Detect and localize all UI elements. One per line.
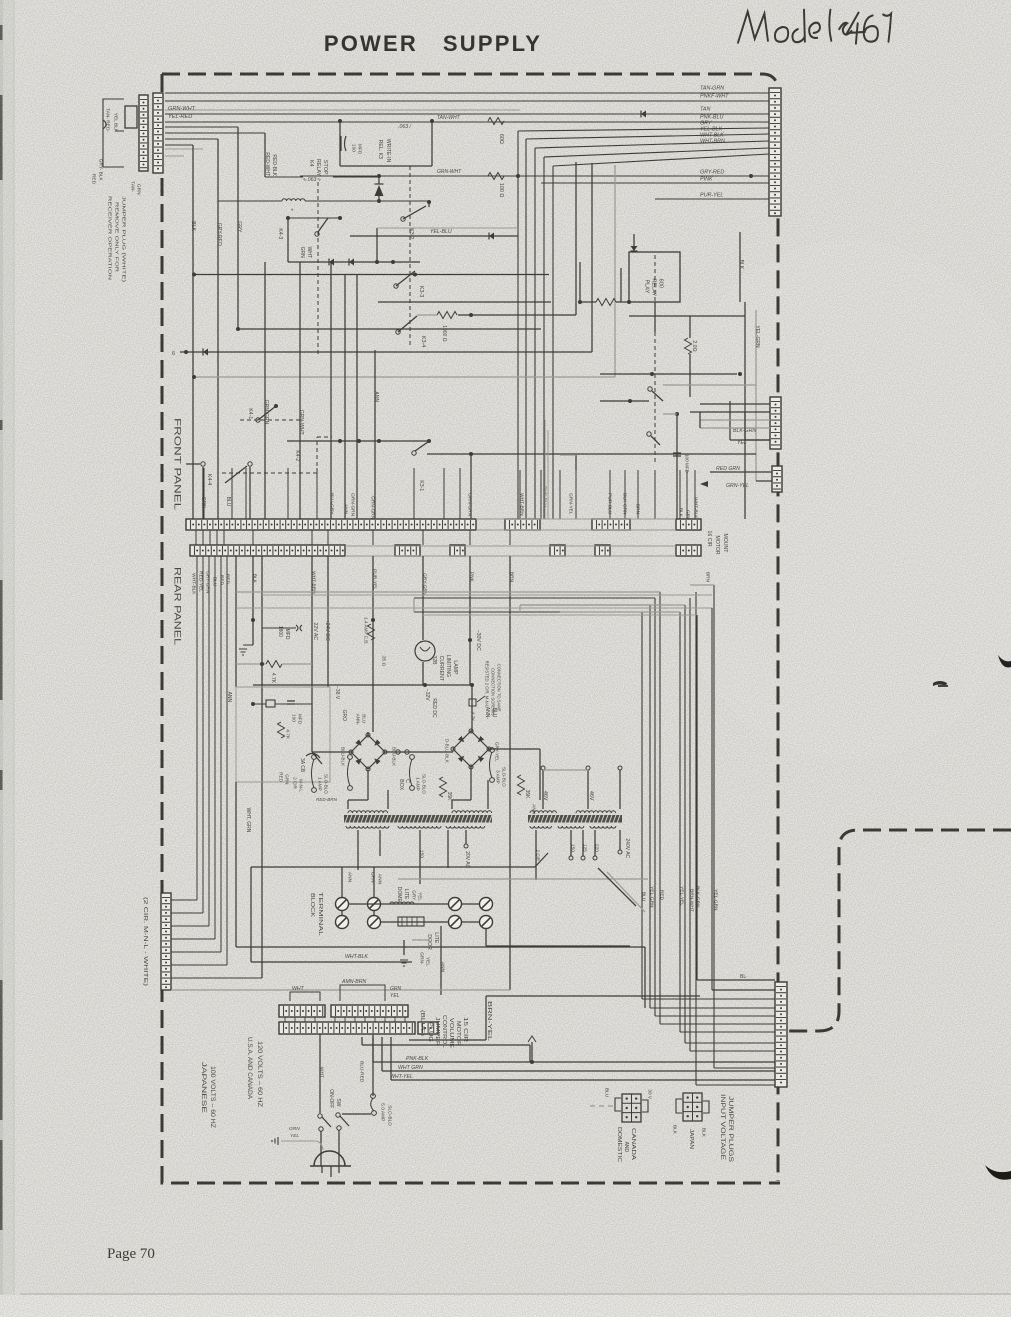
svg-text:GRY-YEL: GRY-YEL — [494, 742, 499, 762]
svg-text:BLK: BLK — [700, 1128, 706, 1138]
svg-text:WHT-BLK: WHT-BLK — [190, 573, 196, 595]
svg-text:GRN-GRN: GRN-GRN — [369, 496, 375, 519]
svg-text:JUMPER PLUGS: JUMPER PLUGS — [727, 1096, 734, 1162]
svg-text:BL·: BL· — [740, 974, 748, 980]
svg-text:ANN-: ANN- — [484, 707, 490, 720]
svg-text:3A CB: 3A CB — [299, 758, 305, 773]
svg-text:RED-YEL: RED-YEL — [197, 571, 203, 592]
svg-text:GRN: GRN — [390, 986, 402, 992]
svg-text:100: 100 — [350, 144, 356, 152]
svg-text:PUR-BLU: PUR-BLU — [606, 493, 612, 515]
svg-text:GRN: GRN — [135, 184, 141, 195]
svg-text:YEL-GRN: YEL-GRN — [648, 886, 654, 908]
svg-text:JAPANESE: JAPANESE — [200, 1062, 207, 1114]
svg-text:BLK: BLK — [251, 574, 257, 584]
svg-text:−32V: −32V — [424, 689, 430, 701]
svg-text:BRN: BRN — [704, 572, 710, 583]
svg-text:DOMESTIC: DOMESTIC — [616, 1127, 622, 1163]
svg-text:RED GRN: RED GRN — [716, 466, 740, 472]
svg-text:K3-3: K3-3 — [418, 286, 424, 297]
svg-text:PLAY: PLAY — [644, 279, 650, 293]
svg-text:RESISTED 2 CIR. M-N-L: RESISTED 2 CIR. M-N-L — [485, 661, 490, 708]
svg-text:JUMPER: JUMPER — [434, 1017, 440, 1047]
svg-text:BLU: BLU — [640, 892, 646, 902]
svg-text:5.0 AMP: 5.0 AMP — [379, 1103, 385, 1121]
svg-text:WHT-BLK: WHT-BLK — [345, 954, 368, 960]
svg-text:ANN-: ANN- — [355, 714, 360, 726]
svg-text:FRONT PANEL: FRONT PANEL — [172, 418, 183, 510]
svg-text:SLO-BLO: SLO-BLO — [386, 1105, 392, 1126]
svg-text:15 CIR: 15 CIR — [462, 1017, 468, 1043]
svg-text:WHT-BRN: WHT-BRN — [518, 493, 524, 516]
svg-text:RED-BLK: RED-BLK — [271, 154, 277, 176]
svg-text:LIMITING: LIMITING — [445, 655, 451, 677]
svg-text:RED DC: RED DC — [431, 698, 437, 718]
svg-text:.063 /: .063 / — [398, 124, 412, 130]
svg-text:6: 6 — [172, 351, 175, 357]
svg-text:YEL: YEL — [737, 440, 747, 446]
svg-text:INPUT VOLTAGE: INPUT VOLTAGE — [719, 1094, 726, 1160]
svg-text:YEL: YEL — [417, 892, 422, 901]
svg-text:WRITE-IN: WRITE-IN — [385, 139, 391, 163]
svg-text:TAN: TAN — [700, 107, 710, 113]
svg-text:3 AMP: 3 AMP — [495, 770, 500, 784]
svg-text:SLO-BLO: SLO-BLO — [501, 767, 506, 787]
svg-text:CONNECTION SCREWS: CONNECTION SCREWS — [491, 668, 496, 716]
svg-text:GRN-WHT: GRN-WHT — [298, 410, 304, 436]
svg-text:ANN: ANN — [226, 692, 232, 703]
svg-text:STOP: STOP — [322, 160, 328, 175]
svg-text:BRN-WHT: BRN-WHT — [688, 889, 694, 912]
svg-text:4.7K: 4.7K — [284, 729, 290, 740]
svg-text:BLK-GRN: BLK-GRN — [621, 493, 627, 515]
svg-text:GRN-GRN: GRN-GRN — [466, 493, 472, 516]
svg-text:32B: 32B — [431, 656, 437, 666]
svg-text:M-N-L: M-N-L — [298, 779, 303, 792]
svg-text:RED-BRN: RED-BRN — [316, 797, 338, 802]
svg-text:CONNECTION TO SAME: CONNECTION TO SAME — [497, 664, 502, 712]
svg-text:RELAY: RELAY — [315, 159, 321, 177]
svg-text:YEL: YEL — [390, 993, 400, 999]
svg-text:100 VOLTS – 60 HZ: 100 VOLTS – 60 HZ — [209, 1066, 216, 1128]
svg-text:100 Ω: 100 Ω — [498, 183, 504, 198]
svg-text:−30V DC: −30V DC — [475, 630, 481, 651]
svg-text:WHT-BRN: WHT-BRN — [700, 139, 725, 145]
svg-text:CANADA: CANADA — [630, 1128, 636, 1161]
svg-text:Page 70: Page 70 — [107, 1246, 155, 1262]
svg-text:JUMPER PLUG (WHITE): JUMPER PLUG (WHITE) — [121, 196, 126, 283]
svg-text:TAN-WHT: TAN-WHT — [437, 115, 461, 121]
svg-text:ANN: ANN — [439, 962, 445, 973]
svg-text:150: 150 — [569, 844, 575, 852]
svg-text:DOOR: DOOR — [426, 934, 432, 950]
svg-text:BLU: BLU — [225, 497, 231, 507]
svg-text:POWER SUPPLY: POWER SUPPLY — [324, 31, 542, 56]
svg-text:RELAY: RELAY — [651, 278, 657, 296]
svg-text:RECEIVER OPERATION: RECEIVER OPERATION — [107, 196, 112, 280]
svg-text:22V AC: 22V AC — [312, 623, 318, 641]
svg-text:K4-2: K4-2 — [294, 450, 300, 461]
svg-text:BOX: BOX — [398, 779, 404, 790]
svg-text:DOME: DOME — [396, 887, 402, 903]
svg-text:C: C — [404, 779, 410, 783]
svg-text:SW: SW — [335, 1098, 341, 1106]
svg-text:2.0Ω: 2.0Ω — [691, 340, 697, 351]
svg-text:4.7K: 4.7K — [270, 673, 276, 684]
svg-text:−38 V: −38 V — [334, 686, 340, 700]
svg-text:JAPAN: JAPAN — [688, 1129, 694, 1149]
svg-text:K4-3: K4-3 — [277, 228, 283, 239]
svg-text:120 VOLTS – 60 HZ: 120 VOLTS – 60 HZ — [256, 1041, 263, 1107]
svg-text:SLO-BLO: SLO-BLO — [421, 774, 426, 794]
svg-text:AMN-BRN: AMN-BRN — [341, 979, 366, 985]
svg-text:LITE: LITE — [403, 889, 409, 900]
svg-text:ANN: ANN — [376, 874, 382, 885]
svg-text:BLU-BLK: BLU-BLK — [340, 747, 345, 767]
svg-text:K3-4: K3-4 — [420, 336, 426, 347]
svg-text:TAN-GRN: TAN-GRN — [700, 86, 724, 92]
svg-text:K4: K4 — [308, 160, 314, 167]
svg-text:RED: RED — [658, 890, 664, 901]
svg-text:100: 100 — [290, 714, 296, 722]
svg-text:K4-4: K4-4 — [206, 474, 212, 485]
svg-text:150: 150 — [418, 850, 424, 858]
svg-text:TERMINAL: TERMINAL — [317, 892, 323, 936]
svg-text:PLUG: PLUG — [427, 1022, 433, 1042]
svg-text:MOUNT: MOUNT — [722, 533, 728, 553]
svg-text:YEL: YEL — [424, 957, 430, 966]
svg-text:WHT-BRN: WHT-BRN — [310, 571, 316, 594]
svg-text:MFD: MFD — [296, 714, 302, 725]
svg-text:PNK-BLU: PNK-BLU — [541, 486, 547, 507]
svg-text:PUR-YEL: PUR-YEL — [700, 193, 723, 199]
svg-text:GRO: GRO — [341, 710, 347, 722]
svg-text:PUR-YEL: PUR-YEL — [371, 569, 377, 590]
svg-text:PNKF-WHT: PNKF-WHT — [700, 94, 729, 100]
svg-text:TAN- RED-: TAN- RED- — [104, 108, 110, 132]
svg-text:GRN-: GRN- — [418, 952, 424, 965]
svg-text:U.S.A. AND CANADA: U.S.A. AND CANADA — [246, 1037, 253, 1100]
svg-text:+24V DC: +24V DC — [324, 620, 330, 641]
svg-text:REMOVE ONLY FOR: REMOVE ONLY FOR — [114, 202, 119, 273]
svg-text:2 CIR: 2 CIR — [292, 777, 297, 789]
svg-text:ANN: ANN — [346, 872, 352, 883]
svg-text:1 AMP: 1 AMP — [317, 777, 322, 791]
svg-text:60Ω: 60Ω — [498, 134, 504, 144]
svg-text:YEL-YEL: YEL-YEL — [678, 886, 684, 906]
svg-text:CURRENT: CURRENT — [438, 656, 444, 682]
svg-text:RED: RED — [90, 174, 96, 185]
svg-text:GRN-YEL: GRN-YEL — [567, 493, 573, 515]
svg-text:16 CIR: 16 CIR — [706, 531, 712, 547]
svg-text:WHT: WHT — [306, 247, 312, 258]
svg-text:.35 Ω: .35 Ω — [380, 655, 386, 667]
svg-text:ANN: ANN — [373, 391, 379, 402]
svg-text:20V AC: 20V AC — [464, 851, 470, 868]
svg-text:1.4 AMP C.B.: 1.4 AMP C.B. — [363, 617, 368, 645]
svg-text:BLU-RED: BLU-RED — [358, 1061, 364, 1083]
svg-text:AND: AND — [623, 1142, 629, 1153]
svg-text:MOTOR: MOTOR — [455, 1021, 461, 1047]
svg-text:30 V: 30 V — [646, 1089, 652, 1100]
svg-text:ON-OFF: ON-OFF — [328, 1089, 334, 1108]
svg-text:REL. K3: REL. K3 — [377, 140, 383, 159]
svg-text:BLU: BLU — [361, 714, 366, 723]
svg-text:GRN-WHT: GRN-WHT — [168, 106, 196, 112]
svg-text:WHT: WHT — [292, 986, 305, 992]
svg-text:GRN: GRN — [299, 247, 305, 259]
svg-text:YEL-BLU: YEL-BLU — [430, 229, 452, 235]
svg-text:220: 220 — [593, 844, 599, 852]
svg-text:YEL-GRN: YEL-GRN — [712, 889, 718, 911]
svg-text:REAR PANEL: REAR PANEL — [172, 567, 183, 645]
svg-text:MFD: MFD — [284, 629, 290, 640]
svg-text:46V: 46V — [588, 791, 594, 801]
svg-text:SLO-BLO: SLO-BLO — [323, 774, 328, 794]
svg-text:BLK: BLK — [671, 1125, 677, 1135]
svg-text:BRN-YEL: BRN-YEL — [486, 1001, 492, 1041]
svg-text:GRY: GRY — [236, 221, 242, 233]
svg-text:GRN: GRN — [284, 774, 289, 784]
svg-text:D-BLU-BLK: D-BLU-BLK — [444, 739, 449, 764]
svg-text:GRN-WHT: GRN-WHT — [437, 169, 462, 175]
svg-text:BRN: BRN — [634, 504, 640, 515]
svg-text:K4-1: K4-1 — [247, 408, 253, 419]
svg-text:GRY- BLK: GRY- BLK — [97, 159, 103, 182]
svg-text:LITE: LITE — [433, 932, 439, 943]
svg-text:MFD: MFD — [356, 144, 362, 155]
svg-text:BLU-BLK: BLU-BLK — [391, 747, 396, 767]
svg-text:RED-WHT: RED-WHT — [264, 152, 270, 176]
svg-text:YEL BLK: YEL BLK — [112, 113, 118, 133]
svg-text:GRY-RED: GRY-RED — [216, 223, 222, 247]
svg-text:240V AC: 240V AC — [624, 838, 630, 858]
svg-text:(BLUE): (BLUE) — [419, 1010, 425, 1037]
svg-text:BLU: BLU — [603, 1088, 609, 1098]
svg-text:4.7K: 4.7K — [470, 712, 475, 722]
svg-text:1 AMP: 1 AMP — [415, 777, 420, 791]
svg-text:RED: RED — [278, 772, 283, 782]
svg-text:VOLUME: VOLUME — [448, 1018, 454, 1049]
svg-text:MOTOR: MOTOR — [714, 535, 720, 554]
svg-text:35K: 35K — [446, 792, 452, 802]
svg-text:600: 600 — [658, 279, 664, 288]
svg-text:(2 CIR. M-N-L - WHITE): (2 CIR. M-N-L - WHITE) — [142, 897, 148, 987]
svg-text:∿.063∿: ∿.063∿ — [302, 177, 321, 183]
svg-text:WHT, GRN: WHT, GRN — [245, 808, 251, 833]
svg-text:YEL: YEL — [290, 1133, 299, 1139]
svg-text:125: 125 — [581, 844, 587, 852]
svg-text:YEL-GRN: YEL-GRN — [754, 325, 760, 348]
svg-text:GRN-GRN: GRN-GRN — [349, 493, 355, 516]
svg-text:GRN: GRN — [289, 1126, 300, 1132]
svg-text:PNK: PNK — [468, 572, 474, 583]
svg-text:BLOCK: BLOCK — [309, 893, 315, 918]
svg-text:35K: 35K — [524, 790, 530, 800]
svg-text:CONTROL: CONTROL — [441, 1015, 447, 1048]
svg-text:BRN: BRN — [508, 572, 514, 583]
svg-text:LAMP: LAMP — [452, 660, 458, 675]
svg-text:K3-1: K3-1 — [418, 480, 424, 491]
svg-text:BLK: BLK — [190, 221, 196, 231]
svg-text:YEL-RED: YEL-RED — [168, 114, 192, 120]
svg-text:WHT: WHT — [318, 1067, 324, 1078]
svg-text:PINK: PINK — [700, 177, 713, 183]
svg-text:ANN: ANN — [342, 504, 348, 515]
svg-text:GRY-RED: GRY-RED — [700, 170, 724, 176]
svg-text:WHT-YEL: WHT-YEL — [390, 1074, 413, 1080]
svg-text:TAN-: TAN- — [129, 181, 135, 192]
svg-text:BLU-GRY: BLU-GRY — [328, 493, 334, 515]
svg-text:GRN-YEL: GRN-YEL — [726, 483, 749, 489]
svg-text:K3-2: K3-2 — [408, 228, 414, 239]
svg-text:2 CIR: 2 CIR — [536, 850, 541, 861]
svg-text:WHT GRN: WHT GRN — [398, 1065, 423, 1071]
svg-text:1900 Ω: 1900 Ω — [441, 325, 447, 342]
svg-text:GRY: GRY — [411, 890, 416, 900]
svg-text:BLK: BLK — [738, 260, 744, 270]
svg-text:PNK-BLK: PNK-BLK — [406, 1056, 429, 1062]
svg-text:GRN: GRN — [200, 497, 206, 509]
svg-text:BLU: BLU — [211, 577, 217, 587]
